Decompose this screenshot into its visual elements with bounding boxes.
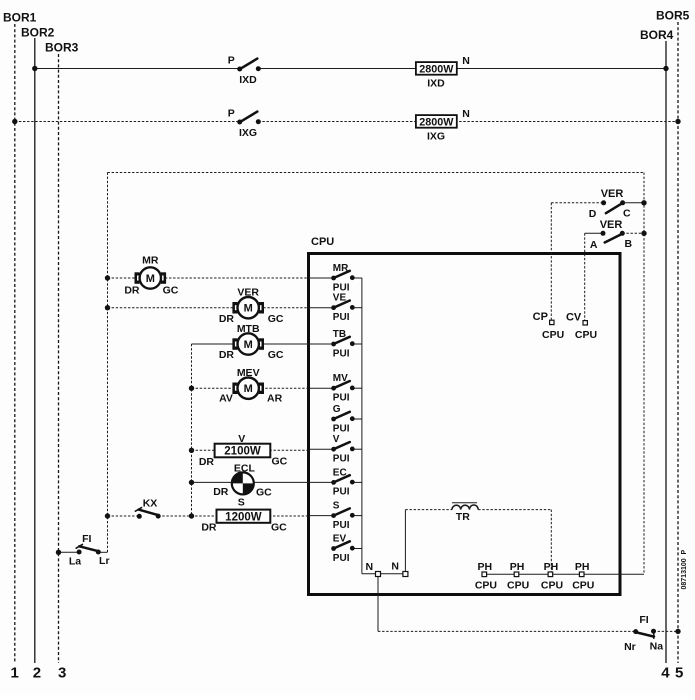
svg-text:VER: VER xyxy=(237,287,259,299)
svg-text:V: V xyxy=(238,433,245,445)
lamp ECL xyxy=(213,463,272,499)
bus BOR4 xyxy=(640,28,674,663)
resistor IXG 2800W xyxy=(416,108,470,143)
junction mid-V xyxy=(189,448,194,453)
svg-text:ECL: ECL xyxy=(234,463,256,475)
switch VER D-C xyxy=(589,188,644,220)
svg-text:P: P xyxy=(228,108,235,120)
svg-text:2800W: 2800W xyxy=(419,64,454,76)
wire MEV row xyxy=(192,387,311,389)
svg-text:3: 3 xyxy=(58,665,66,682)
svg-text:VE: VE xyxy=(333,293,347,304)
wire mid feed vertical xyxy=(191,344,193,516)
svg-text:D: D xyxy=(589,208,597,220)
switch EC/PUI xyxy=(310,467,362,497)
node 1 xyxy=(11,665,19,682)
bus BOR1 xyxy=(3,11,37,664)
switch EV/PUI xyxy=(331,534,362,564)
svg-text:IXG: IXG xyxy=(239,127,257,139)
junction mid-MEV xyxy=(189,386,194,391)
terminal N2 xyxy=(391,561,407,577)
bus BOR3 xyxy=(45,41,79,664)
wire V row xyxy=(192,449,311,451)
svg-text:N: N xyxy=(366,561,374,573)
wire CV drop xyxy=(584,233,586,320)
svg-text:Lr: Lr xyxy=(99,555,110,567)
terminal PH3 xyxy=(541,561,563,592)
svg-text:N: N xyxy=(391,561,399,573)
junction feed-KX xyxy=(105,513,110,518)
svg-text:IXD: IXD xyxy=(239,74,257,86)
svg-text:S: S xyxy=(333,501,340,512)
svg-text:DR: DR xyxy=(201,522,217,534)
svg-text:4: 4 xyxy=(661,665,670,682)
svg-text:PH: PH xyxy=(575,561,590,573)
svg-text:DR: DR xyxy=(213,486,229,498)
svg-text:M: M xyxy=(146,273,155,285)
bus BOR2 xyxy=(21,26,55,664)
junction FI-left on BOR3 xyxy=(56,550,61,555)
svg-text:PUI: PUI xyxy=(333,487,350,498)
svg-text:BOR3: BOR3 xyxy=(45,41,79,55)
wire VER-D feed xyxy=(551,202,603,204)
svg-text:PUI: PUI xyxy=(333,393,350,404)
terminal PH2 xyxy=(507,561,529,592)
switch KX xyxy=(135,498,160,519)
motor MTB xyxy=(219,323,284,361)
svg-text:BOR5: BOR5 xyxy=(656,9,690,23)
junction feed-MR xyxy=(105,275,110,280)
svg-text:PUI: PUI xyxy=(333,520,350,531)
bus PUI vertical xyxy=(362,278,406,574)
bus BOR5 xyxy=(656,9,690,664)
wire MR row xyxy=(108,277,311,279)
svg-text:VER: VER xyxy=(601,188,624,200)
wire FI-left row xyxy=(59,551,108,553)
svg-text:PUI: PUI xyxy=(333,423,350,434)
junction feed-VER xyxy=(105,305,110,310)
wire IXG line xyxy=(15,121,678,123)
node 5 xyxy=(675,665,683,682)
svg-text:DR: DR xyxy=(219,313,235,325)
wire PH line xyxy=(482,573,644,575)
svg-text:1: 1 xyxy=(11,665,19,682)
svg-text:5: 5 xyxy=(675,665,683,682)
junction on BOR4 xyxy=(663,66,668,71)
junction on BOR1 xyxy=(12,119,17,124)
switch G/PUI xyxy=(331,404,362,434)
terminal CP xyxy=(533,311,565,341)
svg-text:GC: GC xyxy=(256,487,272,499)
wire EC row xyxy=(192,481,311,483)
svg-text:MEV: MEV xyxy=(237,367,260,379)
svg-text:PUI: PUI xyxy=(333,553,350,564)
svg-text:TR: TR xyxy=(456,511,470,523)
junction on BOR5 xyxy=(675,119,680,124)
sheet reference 08713100 P xyxy=(681,549,688,589)
svg-text:MR: MR xyxy=(142,255,159,267)
switch IXD xyxy=(228,55,261,87)
wire feed left vertical xyxy=(107,173,109,553)
svg-text:BOR2: BOR2 xyxy=(21,26,55,40)
motor MR xyxy=(124,255,178,297)
junction VER-B on right edge xyxy=(641,231,646,236)
switch FI left xyxy=(69,533,110,567)
node 3 xyxy=(58,665,66,682)
wire N drop xyxy=(377,576,379,631)
wire MTB row xyxy=(192,343,311,345)
svg-text:1200W: 1200W xyxy=(225,511,262,523)
svg-text:AV: AV xyxy=(219,393,233,405)
svg-text:PUI: PUI xyxy=(333,312,350,323)
wire VER motor row xyxy=(108,307,311,309)
svg-text:CPU: CPU xyxy=(572,580,594,592)
svg-text:PUI: PUI xyxy=(333,282,350,293)
svg-text:CP: CP xyxy=(533,311,548,323)
motor MEV xyxy=(219,367,282,405)
svg-text:M: M xyxy=(244,303,253,315)
switch IXG xyxy=(228,108,261,140)
svg-text:PH: PH xyxy=(544,561,559,573)
svg-text:Nr: Nr xyxy=(624,641,636,653)
switch MR/PUI xyxy=(310,263,362,293)
svg-text:S: S xyxy=(238,497,245,509)
svg-text:PH: PH xyxy=(510,561,525,573)
CPU box xyxy=(309,236,621,595)
switch VE/PUI xyxy=(310,293,362,323)
svg-text:PH: PH xyxy=(478,561,493,573)
svg-text:BOR4: BOR4 xyxy=(640,28,674,42)
wire TR loop xyxy=(405,510,551,572)
svg-text:08713100 P: 08713100 P xyxy=(681,549,688,589)
svg-text:Na: Na xyxy=(650,641,664,653)
svg-text:N: N xyxy=(462,55,470,67)
svg-text:La: La xyxy=(69,555,81,567)
svg-text:GC: GC xyxy=(163,285,179,297)
svg-text:GC: GC xyxy=(271,522,287,534)
svg-text:FI: FI xyxy=(639,614,648,626)
junction FI-right on BOR5 xyxy=(675,629,680,634)
terminal N1 xyxy=(366,561,381,577)
svg-text:TB: TB xyxy=(333,329,346,340)
svg-text:BOR1: BOR1 xyxy=(3,11,37,25)
svg-text:GC: GC xyxy=(272,456,288,468)
terminal PH4 xyxy=(572,561,594,592)
svg-text:CPU: CPU xyxy=(507,580,529,592)
junction mid-EC xyxy=(189,480,194,485)
motor VER xyxy=(219,287,284,325)
svg-text:M: M xyxy=(244,383,253,395)
wire bottom run xyxy=(378,630,678,632)
switch MV/PUI xyxy=(310,373,362,403)
junction VER-C on right edge xyxy=(641,200,646,205)
svg-text:IXD: IXD xyxy=(427,78,445,90)
svg-text:N: N xyxy=(462,108,470,120)
svg-text:CPU: CPU xyxy=(575,329,597,341)
svg-text:P: P xyxy=(228,55,235,67)
svg-text:2: 2 xyxy=(33,665,41,682)
svg-text:MTB: MTB xyxy=(237,323,260,335)
svg-text:B: B xyxy=(625,238,633,250)
svg-text:M: M xyxy=(244,339,253,351)
switch VER A-B xyxy=(590,219,644,251)
svg-text:FI: FI xyxy=(82,533,91,545)
resistor V 2100W xyxy=(199,433,288,468)
svg-text:MV: MV xyxy=(333,373,348,384)
svg-text:DR: DR xyxy=(219,349,235,361)
svg-text:DR: DR xyxy=(199,456,215,468)
wire CP drop xyxy=(550,203,552,320)
svg-text:V: V xyxy=(333,434,340,445)
svg-text:PUI: PUI xyxy=(333,454,350,465)
svg-text:GC: GC xyxy=(268,349,284,361)
wire IXD line xyxy=(35,68,666,70)
resistor IXD 2800W xyxy=(416,55,470,90)
terminal CV xyxy=(566,311,597,341)
svg-text:EV: EV xyxy=(333,534,347,545)
junction mid-S xyxy=(189,513,194,518)
svg-text:AR: AR xyxy=(267,393,283,405)
node 4 xyxy=(661,665,670,682)
svg-text:CPU: CPU xyxy=(311,236,334,248)
svg-text:DR: DR xyxy=(124,285,140,297)
svg-text:C: C xyxy=(623,208,631,220)
svg-text:2100W: 2100W xyxy=(224,446,261,458)
wire right edge xyxy=(643,173,645,575)
terminal PH1 xyxy=(475,561,497,592)
svg-text:IXG: IXG xyxy=(427,131,445,143)
switch TB/PUI xyxy=(310,329,362,359)
svg-text:CV: CV xyxy=(566,311,582,323)
switch FI right xyxy=(624,614,663,653)
svg-text:PUI: PUI xyxy=(333,348,350,359)
switch V/PUI xyxy=(310,434,362,464)
junction on BOR2 xyxy=(32,66,37,71)
resistor S 1200W xyxy=(201,497,287,534)
svg-text:CPU: CPU xyxy=(541,580,563,592)
wire VER-A feed xyxy=(585,232,603,234)
wire top edge xyxy=(108,172,645,174)
svg-text:MR: MR xyxy=(333,263,349,274)
svg-text:A: A xyxy=(590,239,598,251)
svg-text:KX: KX xyxy=(143,498,158,510)
svg-text:VER: VER xyxy=(600,219,623,231)
svg-text:CPU: CPU xyxy=(542,329,564,341)
svg-text:2800W: 2800W xyxy=(419,117,454,129)
switch S/PUI xyxy=(310,501,362,531)
svg-text:CPU: CPU xyxy=(475,580,497,592)
svg-text:GC: GC xyxy=(268,313,284,325)
wire S row xyxy=(108,515,311,517)
svg-text:EC: EC xyxy=(333,467,347,478)
node 2 xyxy=(33,665,41,682)
inductor TR xyxy=(452,503,478,523)
svg-text:G: G xyxy=(333,404,341,415)
